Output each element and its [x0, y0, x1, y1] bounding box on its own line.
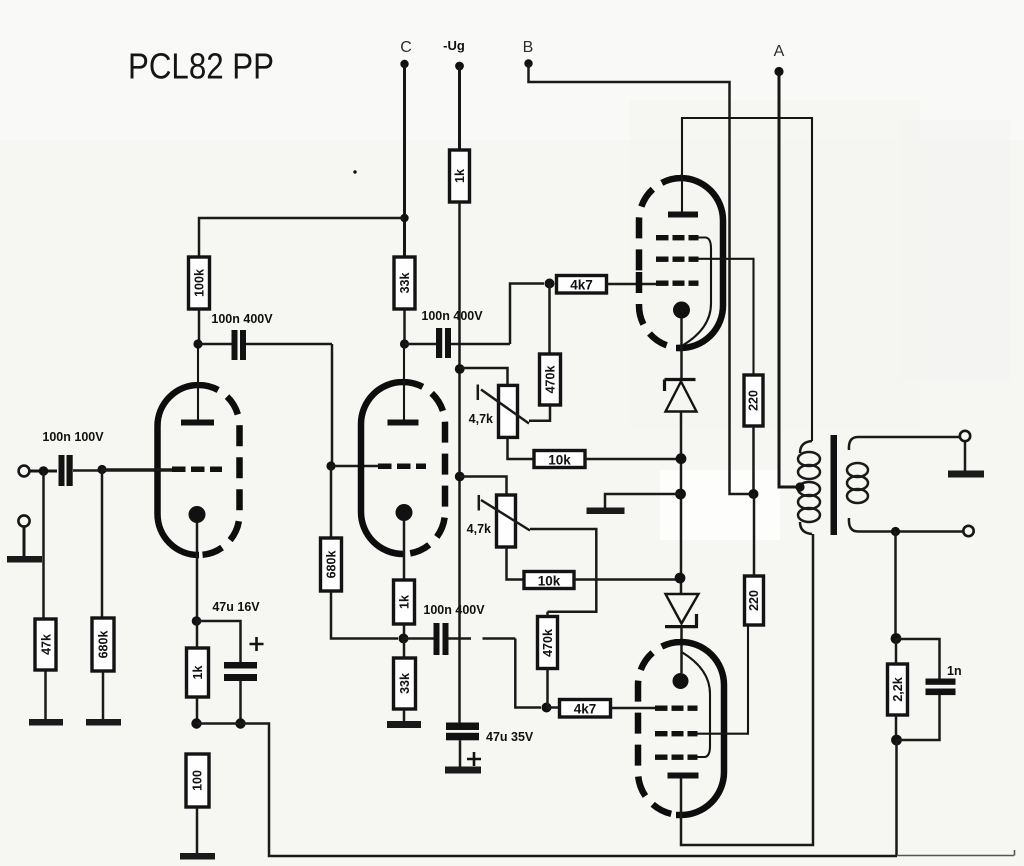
anode plate V2	[668, 212, 698, 218]
output terminal bottom	[963, 526, 973, 536]
wire g2 V2 to 220	[699, 259, 754, 375]
node -Ug terminal	[443, 38, 465, 70]
wire 4k7 lower to grid V3	[547, 706, 656, 709]
svg-text:1k: 1k	[398, 595, 412, 609]
svg-text:470k: 470k	[544, 366, 558, 394]
capacitor 100n 400V (C3)	[405, 309, 511, 358]
svg-text:33k: 33k	[398, 273, 412, 294]
wire to resistor 680k	[101, 470, 104, 619]
wire pot P2 wiper to 470k lower	[530, 529, 596, 612]
resistor 680k (V1b grid)	[321, 538, 342, 591]
wire g3 V3 internal to cathode	[682, 652, 711, 757]
wire pot P1 bottom to 10k	[508, 437, 535, 459]
resistor 470k (lower)	[538, 617, 558, 669]
capacitor 100n 400V (C2)	[198, 312, 332, 360]
wire C4 to lower grid node	[515, 639, 541, 708]
ground (secondary top)	[948, 471, 984, 478]
node center ground junction	[675, 489, 686, 500]
resistor 47k	[35, 619, 56, 670]
triode V1a envelope	[158, 385, 240, 555]
svg-text:4,7k: 4,7k	[467, 522, 491, 536]
cathode V1a	[189, 506, 206, 523]
svg-text:4k7: 4k7	[570, 278, 593, 293]
input terminal J2	[18, 515, 29, 526]
svg-text:C: C	[400, 39, 412, 56]
ground (680k)	[86, 719, 121, 726]
node C terminal	[400, 39, 412, 68]
wire 2,2k	[895, 639, 898, 741]
potentiometer 4,7k (P1)	[469, 385, 529, 438]
node screen rail	[749, 489, 759, 499]
node plate-supply junction	[400, 214, 408, 222]
wire 220 upper to B node	[752, 426, 755, 494]
wire grid V1a from node	[102, 468, 172, 471]
node bias lower	[455, 472, 465, 482]
grid V1a dashes	[172, 467, 222, 473]
node B terminal	[523, 39, 534, 68]
svg-text:47u 16V: 47u 16V	[212, 600, 260, 614]
ground (47u 35V)	[445, 767, 481, 774]
wire center to ground	[605, 494, 681, 508]
resistor 33k (C rail)	[394, 257, 415, 309]
cathode V1b	[396, 504, 413, 521]
wire -Ug rail down	[458, 202, 461, 723]
capacitor 47u 16V	[197, 600, 264, 724]
wire 100 to ground	[196, 807, 199, 854]
resistor 4k7 (lower grid stopper)	[560, 700, 611, 718]
svg-text:4,7k: 4,7k	[469, 412, 493, 426]
wire plate V2 to transformer top	[682, 118, 812, 441]
wire cathode node to ground return	[197, 724, 898, 857]
wire cap to grid node	[73, 469, 172, 472]
node bias upper	[455, 364, 465, 374]
svg-text:100k: 100k	[193, 269, 207, 297]
wire plate V1b	[403, 344, 405, 420]
wire -Ug down	[458, 66, 461, 150]
grid g1 V3 dashes	[655, 706, 698, 711]
ground (33k lower)	[387, 721, 421, 728]
resistor 33k (V1b lower)	[394, 658, 416, 709]
potentiometer 4,7k (P2)	[467, 495, 530, 547]
wire node to 470k upper	[548, 284, 551, 355]
svg-text:1k: 1k	[453, 169, 467, 183]
wire node to 680k	[330, 466, 333, 538]
ground (center bias)	[587, 508, 625, 515]
resistor 10k (upper)	[534, 451, 585, 468]
ground (100)	[180, 853, 215, 860]
resistor 1k (V1b cathode)	[394, 580, 415, 624]
node input junction	[39, 466, 49, 476]
wire 680k down to cathode node	[331, 591, 398, 639]
node secondary bottom	[891, 527, 900, 536]
node 10k upper junction	[676, 453, 687, 464]
node zobel bottom	[891, 735, 902, 746]
svg-text:100n 100V: 100n 100V	[42, 430, 104, 444]
svg-text:680k: 680k	[97, 631, 111, 659]
wire grid V1b	[331, 465, 378, 468]
svg-text:47u 35V: 47u 35V	[486, 730, 534, 744]
svg-text:1k: 1k	[191, 666, 205, 680]
wire secondary top to terminal	[858, 436, 960, 439]
wire 100k to plate node	[198, 309, 201, 344]
wire C rail down	[403, 64, 406, 257]
svg-text:4k7: 4k7	[574, 702, 597, 717]
transformer T1 core	[831, 435, 838, 535]
grid V1b dashes	[378, 464, 426, 470]
svg-text:-Ug: -Ug	[443, 38, 465, 53]
transformer T1 secondary coil	[847, 437, 868, 532]
node below 47u	[235, 718, 245, 728]
resistor 680k (input)	[92, 618, 114, 671]
wire J2 to ground	[23, 527, 26, 558]
ground (47k)	[29, 719, 63, 726]
wire 470k upper to wiper	[529, 405, 550, 421]
resistor 1k (-Ug rail)	[450, 150, 470, 202]
svg-text:33k: 33k	[398, 673, 412, 694]
wire cathode V1a down	[196, 522, 199, 621]
resistor 470k (upper)	[540, 354, 561, 405]
svg-text:10k: 10k	[538, 574, 561, 589]
ground (input)	[7, 556, 42, 563]
svg-text:100: 100	[191, 770, 205, 791]
wire cathode V2 down	[680, 318, 683, 380]
wire to pot P2 top	[460, 477, 507, 496]
grid g2 V2 dashes	[656, 257, 699, 262]
svg-text:47k: 47k	[40, 634, 54, 655]
wire B to screen rail	[529, 64, 750, 495]
capacitor 1n	[896, 639, 962, 740]
wire 1k to node	[403, 624, 406, 639]
wire to resistor 47k	[42, 471, 45, 619]
node below 1k	[191, 718, 201, 728]
grid g2 V3 dashes	[655, 731, 698, 736]
svg-text:470k: 470k	[541, 629, 555, 657]
svg-text:PCL82 PP: PCL82 PP	[128, 46, 274, 87]
node primary tap	[795, 482, 804, 491]
wire plate V3 to transformer bottom	[681, 534, 813, 845]
wire 10k upper to cathode rail	[585, 458, 681, 461]
node 10k lower junction	[675, 573, 686, 584]
resistor 220 (lower)	[745, 576, 764, 625]
wire 4k7 to grid V2	[607, 283, 657, 286]
wire 33k to plate V1b	[403, 309, 406, 344]
node grid V1b	[326, 461, 335, 470]
wire pot P2 bottom to 10k lower	[507, 547, 525, 580]
wire coupling to V1b grid	[331, 344, 334, 466]
resistor 100	[186, 754, 209, 807]
wire to pot P1 top	[460, 368, 508, 385]
wire D1 to nodes	[680, 412, 683, 595]
wire secondary bottom	[858, 530, 963, 533]
wire 680k to ground	[102, 671, 105, 720]
wire A to transformer tap	[779, 72, 798, 488]
wire D2 to cathode V3	[680, 627, 683, 673]
capacitor 100n 100V (input)	[42, 430, 104, 486]
svg-text:680k: 680k	[325, 551, 339, 579]
wire plate V1a up	[197, 344, 199, 420]
node grid feed upper	[545, 279, 555, 289]
resistor 2,2k	[888, 664, 908, 715]
svg-text:100n 400V: 100n 400V	[421, 309, 483, 323]
wire 470k lower to node	[546, 612, 549, 708]
svg-text:A: A	[774, 43, 785, 60]
wire 47k to ground	[44, 670, 47, 720]
pentode V3 envelope	[638, 642, 724, 815]
wire cathode V1b down	[403, 520, 406, 580]
node A terminal	[774, 43, 785, 76]
resistor 1k (V1a cathode)	[187, 648, 209, 697]
grid g3 V2 dashes	[656, 235, 699, 240]
transformer T1 primary coil	[798, 441, 820, 534]
capacitor 100n 400V (C4)	[404, 603, 516, 655]
wire g2 V3 to 220 lower	[698, 625, 749, 734]
svg-text:100n 400V: 100n 400V	[423, 603, 485, 617]
stray ink dot	[353, 170, 356, 173]
resistor 4k7 (upper grid stopper)	[557, 276, 607, 294]
anode plate V1a	[181, 420, 214, 426]
wire bottom scan edge	[897, 850, 1015, 856]
svg-text:10k: 10k	[548, 453, 571, 468]
wire 10k lower to cathode rail	[574, 578, 680, 581]
wire to zobel	[894, 532, 897, 639]
diode D1	[665, 380, 697, 412]
svg-text:B: B	[523, 39, 534, 56]
anode plate V1b	[388, 420, 419, 426]
svg-text:1n: 1n	[947, 664, 962, 678]
node zobel top	[891, 633, 902, 644]
cathode V2	[673, 302, 690, 319]
resistor 220 (upper)	[744, 375, 763, 426]
wire terminal to ground	[964, 441, 967, 471]
svg-text:2,2k: 2,2k	[891, 677, 905, 701]
diode D2	[665, 594, 699, 627]
svg-text:220: 220	[747, 390, 761, 411]
node grid feed lower	[542, 703, 552, 713]
node plate V1b	[400, 339, 409, 348]
resistor 10k (lower)	[524, 572, 574, 589]
output terminal top	[960, 431, 970, 441]
wire zobel to ground return	[895, 740, 898, 856]
wire C3 to 4k7 node	[510, 284, 544, 345]
svg-text:220: 220	[747, 590, 761, 611]
wire supply to 100k	[199, 218, 405, 257]
node plate V1a	[193, 339, 202, 348]
wire 220 lower to screen node	[753, 494, 756, 576]
node cathode V1b	[399, 634, 409, 644]
wire 1k to node	[196, 621, 199, 724]
node grid V1a	[97, 465, 106, 474]
capacitor 47u 35V	[446, 723, 534, 768]
svg-text:100n 400V: 100n 400V	[211, 312, 273, 326]
resistor 100k	[189, 257, 210, 309]
pentode V2 envelope	[639, 178, 723, 348]
wire 33k lower to ground	[403, 639, 406, 723]
triode V1b envelope	[361, 382, 445, 554]
grid g1 V2 dashes	[656, 281, 699, 286]
wire J1 to C-in	[30, 470, 58, 473]
node cathode V1a	[192, 616, 202, 626]
input terminal J1	[19, 466, 30, 477]
grid g3 V3 dashes	[655, 755, 698, 760]
cathode V3	[673, 673, 689, 689]
anode plate V3	[668, 773, 699, 779]
wire g3 V2 internal to cathode	[683, 238, 712, 346]
